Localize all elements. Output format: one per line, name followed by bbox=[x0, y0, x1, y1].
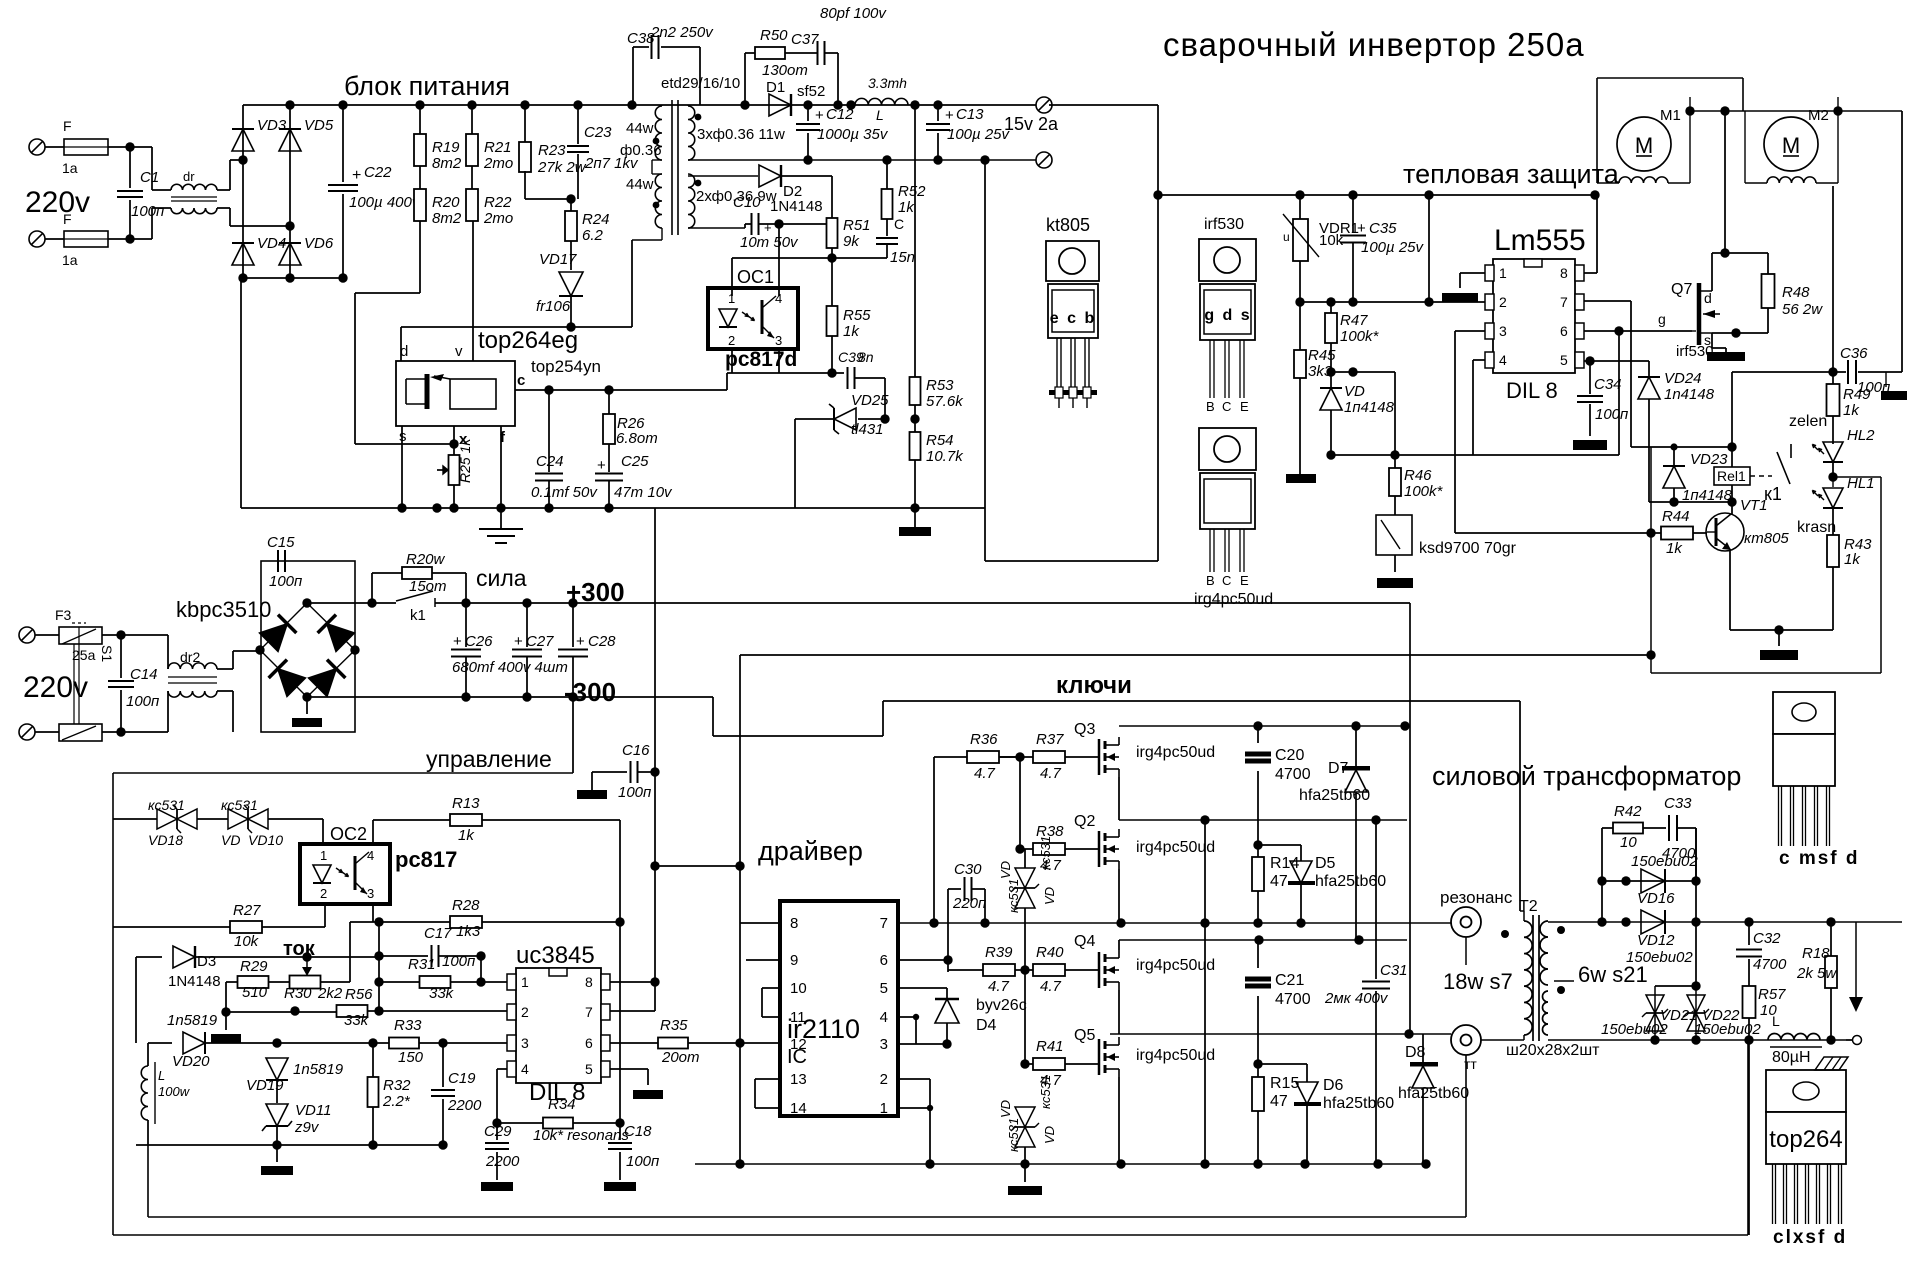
svg-text:1k: 1k bbox=[1666, 540, 1683, 557]
svg-text:12: 12 bbox=[790, 1036, 807, 1053]
junction dots rail y923 bbox=[929, 918, 938, 927]
thermal switch ksd9700 70gr bbox=[1376, 515, 1412, 555]
wire right edge down bbox=[1901, 111, 1903, 372]
svg-text:80µН: 80µН bbox=[1772, 1049, 1811, 1066]
resistor R28 1k3 bbox=[450, 916, 482, 928]
bridge diode 4 bbox=[309, 669, 337, 697]
svg-text:100µ 400v: 100µ 400v bbox=[349, 194, 421, 211]
svg-text:33k: 33k bbox=[429, 985, 455, 1002]
bidir zener кс531 upper bbox=[1015, 868, 1035, 888]
node x379 y922 bbox=[374, 917, 383, 926]
node R15 D6 top bbox=[1253, 1059, 1262, 1068]
svg-text:T2: T2 bbox=[1519, 898, 1538, 915]
svg-text:80pf 100v: 80pf 100v bbox=[820, 5, 887, 22]
wire top bus y105 bbox=[243, 104, 1036, 106]
wire Lm555 pin3 to R44 bbox=[1454, 331, 1456, 533]
svg-text:100п: 100п bbox=[626, 1153, 659, 1170]
wire Q2 source to rail bbox=[1118, 869, 1120, 923]
wire relay feed y447 bbox=[1631, 446, 1732, 448]
svg-text:D5: D5 bbox=[1315, 855, 1336, 872]
svg-text:clxsf d: clxsf d bbox=[1773, 1227, 1847, 1248]
svg-text:k1: k1 bbox=[410, 607, 426, 624]
resistor R55 1k bbox=[831, 258, 833, 307]
svg-text:M1: M1 bbox=[1660, 107, 1681, 124]
junction dots minus bus bbox=[461, 692, 470, 701]
svg-text:R24: R24 bbox=[582, 211, 610, 228]
svg-text:6.8om: 6.8om bbox=[616, 430, 658, 447]
capacitor C37 80pf 100v bbox=[817, 41, 819, 65]
resistor R14 47 bbox=[1257, 845, 1259, 857]
node R55 C39 bbox=[827, 368, 836, 377]
wire bridge plus to k1 bbox=[307, 602, 396, 604]
relay Rel1 bbox=[1714, 467, 1750, 485]
svg-text:dr: dr bbox=[183, 169, 195, 184]
wire 555 pin4 bbox=[1473, 359, 1485, 361]
svg-text:C10: C10 bbox=[733, 194, 761, 211]
wire C17 right down to pin1 line bbox=[480, 956, 482, 982]
svg-text:VD10: VD10 bbox=[248, 832, 283, 848]
wire 555 pin2 left bbox=[1429, 301, 1485, 303]
svg-text:1k: 1k bbox=[1844, 551, 1861, 568]
resistor R18 2k 5w bbox=[1830, 922, 1832, 956]
svg-text:C17: C17 bbox=[424, 925, 452, 942]
svg-text:R33: R33 bbox=[394, 1017, 422, 1034]
wire R42 left column bbox=[1601, 881, 1603, 922]
terminal резонанс bbox=[1451, 907, 1481, 937]
wire pin13 14 bracket bbox=[755, 1078, 780, 1080]
diode VD19 1n5819 bbox=[266, 1058, 288, 1080]
wire secondary2 top to D2 bbox=[688, 175, 758, 177]
svg-text:VD25: VD25 bbox=[851, 392, 889, 409]
svg-text:8n: 8n bbox=[858, 349, 874, 365]
wire x1696 column bbox=[1695, 828, 1697, 986]
wire VD20 to uc3845 pin3 line y1043 bbox=[205, 1042, 389, 1044]
svg-text:R57: R57 bbox=[1758, 986, 1786, 1003]
junction dots thermal line bbox=[1295, 190, 1304, 199]
mosfet Q7 irf530 bbox=[1697, 283, 1702, 345]
node pin6 bbox=[1614, 326, 1623, 335]
pot R30 2k2 bbox=[290, 976, 321, 989]
node Q2 midpoint x1205 bbox=[1200, 815, 1209, 824]
wire bottom return y1145 bbox=[136, 1144, 443, 1146]
node R33 C19 bbox=[438, 1038, 447, 1047]
svg-text:1a: 1a bbox=[62, 252, 78, 268]
led HL1 bbox=[1823, 488, 1843, 508]
svg-text:R40: R40 bbox=[1036, 944, 1064, 961]
svg-text:d: d bbox=[400, 343, 408, 360]
svg-text:VD24: VD24 bbox=[1664, 370, 1702, 387]
wire Q5 drain rail y1034 bbox=[1110, 1033, 1451, 1035]
svg-text:C26: C26 bbox=[465, 633, 493, 650]
diode VD6 bbox=[279, 243, 301, 265]
svg-text:tl431: tl431 bbox=[851, 421, 884, 438]
svg-text:1n4148: 1n4148 bbox=[1664, 386, 1715, 403]
wire D4 bottom to pin3 bbox=[898, 1043, 947, 1045]
svg-text:тепловая защита: тепловая защита bbox=[1403, 159, 1620, 189]
wire ток line y957 bbox=[195, 956, 379, 958]
svg-text:R29: R29 bbox=[240, 958, 268, 975]
resistor R48 56 2w bbox=[1767, 253, 1769, 274]
wire ps ground bus y508 bbox=[241, 507, 985, 509]
svg-text:1000µ 35v: 1000µ 35v bbox=[817, 126, 889, 143]
svg-text:C29: C29 bbox=[484, 1123, 512, 1140]
svg-text:33k: 33k bbox=[344, 1012, 370, 1029]
svg-text:R19: R19 bbox=[432, 139, 460, 156]
svg-text:R54: R54 bbox=[926, 432, 954, 449]
node R32 top bbox=[368, 1038, 377, 1047]
svg-text:C24: C24 bbox=[536, 453, 564, 470]
svg-text:VD20: VD20 bbox=[172, 1053, 210, 1070]
wire secondary bottom y1040 bbox=[1548, 1039, 1602, 1041]
capacitor C13 100µ 25v bbox=[937, 105, 939, 121]
capacitor C34 100п bbox=[1589, 361, 1591, 394]
svg-text:irf530: irf530 bbox=[1204, 216, 1244, 233]
svg-text:100k*: 100k* bbox=[1340, 328, 1380, 345]
wire relay bottom y502 bbox=[1649, 501, 1732, 503]
svg-text:C36: C36 bbox=[1840, 345, 1868, 362]
svg-text:кс531: кс531 bbox=[1006, 1118, 1021, 1152]
svg-text:R31: R31 bbox=[408, 956, 436, 973]
svg-text:2200: 2200 bbox=[485, 1153, 520, 1170]
wire c line bbox=[515, 389, 727, 391]
capacitor C26 680mf 400v bbox=[465, 603, 467, 647]
node x226 y1012 bbox=[221, 1007, 230, 1016]
ic ir2110 bbox=[780, 901, 898, 1116]
node R39 R40 bbox=[1020, 965, 1029, 974]
wire Q2 gate R38 bbox=[1019, 757, 1021, 849]
svg-text:R41: R41 bbox=[1036, 1038, 1064, 1055]
resistor R34 10k* resonans bbox=[497, 1122, 543, 1124]
svg-text:VD16: VD16 bbox=[1637, 890, 1675, 907]
capacitor C12 1000µ 35v bbox=[807, 105, 809, 121]
wire y373 corner to c-line bbox=[726, 373, 728, 390]
svg-text:3: 3 bbox=[1499, 323, 1507, 339]
svg-text:fr106: fr106 bbox=[536, 298, 571, 315]
choke dr bbox=[171, 184, 217, 190]
wire x1205 bus column bbox=[1204, 923, 1206, 1164]
inductor L 100w bbox=[147, 1042, 149, 1044]
wire fuse2 to choke bbox=[108, 238, 152, 240]
svg-text:R56: R56 bbox=[345, 986, 373, 1003]
junction dots lower line bbox=[803, 155, 812, 164]
svg-text:R45: R45 bbox=[1308, 347, 1336, 364]
wire frame bottom inner bbox=[148, 1216, 1466, 1218]
wire y655 long line bbox=[740, 654, 1651, 656]
bridge vertex dots bbox=[302, 598, 311, 607]
capacitor C 15n bbox=[886, 219, 888, 236]
junction dots top bus bbox=[285, 100, 294, 109]
diode VD23 1n4148 bbox=[1673, 447, 1675, 467]
bridge diode 3 bbox=[278, 669, 306, 697]
svg-text:top254yn: top254yn bbox=[531, 357, 601, 376]
svg-text:D6: D6 bbox=[1323, 1077, 1344, 1094]
capacitor C19 2200 bbox=[442, 1043, 444, 1087]
svg-text:14: 14 bbox=[790, 1100, 807, 1117]
svg-text:R28: R28 bbox=[452, 897, 480, 914]
svg-text:C31: C31 bbox=[1380, 962, 1408, 979]
svg-text:-300: -300 bbox=[564, 677, 616, 707]
wire emitter bottom rail bbox=[1730, 629, 1833, 631]
svg-text:F: F bbox=[63, 118, 72, 134]
svg-text:g: g bbox=[1658, 311, 1666, 327]
capacitor C30 220n bbox=[948, 888, 961, 890]
svg-text:3: 3 bbox=[521, 1035, 529, 1051]
svg-text:44w: 44w bbox=[626, 120, 654, 137]
resistor R56 33k bbox=[337, 1005, 368, 1017]
svg-text:100п: 100п bbox=[1595, 406, 1628, 423]
resistor R33 150 bbox=[389, 1038, 419, 1049]
svg-text:irg4pc50ud: irg4pc50ud bbox=[1136, 839, 1215, 856]
svg-text:L: L bbox=[158, 1068, 165, 1083]
wire secondary top y922 bbox=[1548, 921, 1602, 923]
wire y1012 line to pin2 bbox=[226, 1011, 337, 1013]
svg-text:2мк 400v: 2мк 400v bbox=[1324, 990, 1389, 1007]
resistor R54 10.7k bbox=[914, 405, 916, 432]
capacitor C10 10m 50v bbox=[688, 227, 745, 229]
wire pin9 stub bbox=[746, 959, 780, 961]
svg-text:8: 8 bbox=[585, 974, 593, 990]
svg-text:4: 4 bbox=[1499, 352, 1507, 368]
wire R51 R52 junction line bbox=[811, 257, 887, 259]
ground below C29 bbox=[481, 1182, 513, 1191]
wire R29 left riser bbox=[225, 982, 227, 1012]
wire y866 line bbox=[655, 865, 738, 867]
resistor R45 3k3 bbox=[1299, 302, 1301, 350]
resistor R15 47 bbox=[1257, 1064, 1259, 1077]
svg-text:VD23: VD23 bbox=[1690, 451, 1728, 468]
capacitor C33 4700 bbox=[1668, 815, 1670, 841]
bridge diode 1 bbox=[260, 624, 288, 652]
svg-text:3: 3 bbox=[367, 886, 374, 901]
wire minus jog to y736 bbox=[712, 697, 714, 736]
node x295 bbox=[290, 1006, 299, 1015]
bidir zener VD VD10 кс531 bbox=[228, 809, 248, 829]
svg-text:2: 2 bbox=[728, 333, 735, 348]
svg-text:C23: C23 bbox=[584, 124, 612, 141]
wire d-line bbox=[401, 326, 632, 328]
wire T2 primary top bbox=[1520, 910, 1524, 912]
svg-text:680mf 400v 4шт: 680mf 400v 4шт bbox=[452, 659, 568, 676]
svg-text:R27: R27 bbox=[233, 902, 261, 919]
svg-text:5: 5 bbox=[585, 1061, 593, 1077]
svg-text:C30: C30 bbox=[954, 861, 982, 878]
zener VD11 z9v bbox=[266, 1104, 288, 1126]
svg-text:D8: D8 bbox=[1405, 1044, 1426, 1061]
wire x1410 main rail bbox=[1409, 603, 1411, 1034]
node y866 bbox=[650, 861, 659, 870]
svg-text:27k 2w: 27k 2w bbox=[537, 159, 587, 176]
svg-text:zelen: zelen bbox=[1789, 413, 1827, 430]
wire T2 primary bottom to тт bbox=[1481, 1039, 1524, 1041]
svg-text:C16: C16 bbox=[622, 742, 650, 759]
svg-text:+: + bbox=[514, 633, 523, 650]
node C1 bottom bbox=[125, 234, 134, 243]
svg-text:C35: C35 bbox=[1369, 220, 1397, 237]
fuse F3 25a switch S1 bbox=[35, 634, 59, 636]
svg-text:C13: C13 bbox=[956, 106, 984, 123]
terminal power N bbox=[19, 724, 35, 740]
diode VD 1n4148 bbox=[1330, 372, 1332, 388]
wire plus bus y603 bbox=[435, 602, 1410, 604]
svg-text:R32: R32 bbox=[383, 1077, 411, 1094]
wire VT1 emitter down bbox=[1729, 549, 1731, 630]
wire кс531 upper column bbox=[1024, 849, 1026, 868]
svg-text:2: 2 bbox=[880, 1071, 888, 1088]
wire R28 line y922 bbox=[350, 921, 450, 923]
wire R30 right riser to R28 line bbox=[349, 922, 351, 982]
transistor VT1 кт805 bbox=[1706, 513, 1744, 551]
wire R24 to VD17 bbox=[570, 241, 572, 270]
svg-text:5: 5 bbox=[1560, 352, 1568, 368]
svg-text:OC2: OC2 bbox=[330, 824, 367, 844]
diode VD17 fr106 bbox=[559, 272, 583, 296]
node R23 C23 R24 bbox=[566, 194, 575, 203]
node bridge ac2 bbox=[285, 221, 294, 230]
junction dots bridge bottom bbox=[238, 273, 247, 282]
svg-text:Q2: Q2 bbox=[1074, 813, 1095, 830]
terminal тт bbox=[1451, 1025, 1481, 1055]
inductor L 80µH bbox=[1768, 1034, 1820, 1041]
svg-text:VT1: VT1 bbox=[1740, 497, 1768, 514]
svg-text:ф0.36: ф0.36 bbox=[620, 142, 662, 159]
bidir VD21 150ebu02 bbox=[1655, 985, 1696, 987]
svg-text:4: 4 bbox=[521, 1061, 529, 1077]
svg-text:irg4pc50ud: irg4pc50ud bbox=[1136, 744, 1215, 761]
svg-text:4: 4 bbox=[367, 848, 374, 863]
node VD19 top bbox=[272, 1038, 281, 1047]
wire M2 to zelen column bbox=[1832, 186, 1834, 372]
svg-text:g d s: g d s bbox=[1204, 307, 1251, 324]
wire C14 to dr2 bbox=[121, 634, 168, 636]
svg-text:10m 50v: 10m 50v bbox=[740, 234, 799, 251]
svg-text:3: 3 bbox=[880, 1036, 888, 1053]
wire choke to bridge lower bbox=[217, 207, 230, 209]
wire VD16 row y881 bbox=[1602, 880, 1696, 882]
wire bottom bus y1164 bbox=[695, 1163, 1426, 1165]
svg-text:1: 1 bbox=[521, 974, 529, 990]
svg-text:+: + bbox=[945, 107, 954, 124]
svg-text:2200: 2200 bbox=[447, 1097, 482, 1114]
svg-text:VD: VD bbox=[998, 1100, 1013, 1118]
svg-text:OC1: OC1 bbox=[737, 267, 774, 287]
capacitor C29 2200 bbox=[496, 1123, 498, 1140]
svg-text:B: B bbox=[1206, 399, 1215, 414]
wire OC2 pin4 up to R13 line bbox=[372, 820, 374, 844]
svg-text:C14: C14 bbox=[130, 666, 158, 683]
junction dots ground bus bbox=[397, 503, 406, 512]
svg-text:R53: R53 bbox=[926, 377, 954, 394]
svg-text:Q7: Q7 bbox=[1671, 281, 1692, 298]
wire thermal line y195 bbox=[1157, 194, 1597, 196]
svg-text:dr2: dr2 bbox=[180, 649, 200, 665]
svg-text:R52: R52 bbox=[898, 183, 926, 200]
svg-text:+: + bbox=[815, 107, 824, 124]
svg-text:кс531: кс531 bbox=[1006, 879, 1021, 913]
wire 555 pin6 to gate bbox=[1584, 330, 1692, 332]
resistor R43 1k bbox=[1832, 509, 1834, 537]
svg-text:C34: C34 bbox=[1594, 376, 1622, 393]
svg-text:1: 1 bbox=[320, 848, 327, 863]
diode VD24 1n4148 bbox=[1648, 361, 1650, 378]
wire primary bottom to d-line bbox=[661, 228, 663, 240]
ground below VT1 bbox=[1778, 630, 1780, 646]
svg-text:VD: VD bbox=[1042, 1126, 1057, 1144]
diode D6 hfa25tb60 bbox=[1258, 1063, 1307, 1065]
wire x738 column bbox=[739, 655, 741, 866]
svg-text:резонанс: резонанс bbox=[1440, 888, 1513, 907]
svg-text:pc817: pc817 bbox=[395, 847, 457, 872]
capacitor C38 2n2 250v bbox=[632, 47, 634, 105]
svg-text:v: v bbox=[455, 343, 463, 360]
terminal input L1 bbox=[29, 139, 45, 155]
wire fuse1 to choke bbox=[108, 146, 152, 148]
fuse F1 1a bbox=[45, 146, 64, 148]
svg-text:3.3mh: 3.3mh bbox=[868, 75, 907, 91]
svg-text:2k2: 2k2 bbox=[317, 985, 343, 1002]
capacitor C25 47m 10v bbox=[608, 444, 610, 472]
svg-text:100п: 100п bbox=[269, 573, 302, 590]
wire T2 primary drop bbox=[1519, 701, 1521, 911]
node R53 R54 bbox=[910, 414, 919, 423]
node R36 R37 bbox=[1015, 752, 1024, 761]
svg-text:R51: R51 bbox=[843, 217, 871, 234]
svg-text:R55: R55 bbox=[843, 307, 871, 324]
svg-text:6.2: 6.2 bbox=[582, 227, 604, 244]
wire R41 left node bbox=[1025, 1063, 1033, 1065]
svg-text:100п: 100п bbox=[618, 784, 651, 801]
wire OC1 pin1 up bbox=[731, 258, 733, 296]
svg-text:kbpc3510: kbpc3510 bbox=[176, 597, 271, 622]
svg-text:R50: R50 bbox=[760, 27, 788, 44]
fuse F2 1a bbox=[45, 238, 64, 240]
svg-text:E: E bbox=[1240, 399, 1249, 414]
svg-text:uc3845: uc3845 bbox=[516, 942, 595, 969]
svg-text:L: L bbox=[1772, 1013, 1780, 1029]
svg-text:top264eg: top264eg bbox=[478, 327, 578, 354]
svg-text:B: B bbox=[1206, 573, 1215, 588]
wire кс531 chain line bbox=[113, 818, 157, 820]
svg-text:irg4pc50ud: irg4pc50ud bbox=[1136, 1047, 1215, 1064]
junction dots y1040 bbox=[1650, 1035, 1659, 1044]
svg-text:10.7k: 10.7k bbox=[926, 448, 964, 465]
svg-text:HL2: HL2 bbox=[1847, 427, 1875, 444]
svg-text:C19: C19 bbox=[448, 1070, 476, 1087]
svg-text:4700: 4700 bbox=[1753, 956, 1787, 973]
svg-text:1k: 1k bbox=[843, 323, 860, 340]
wire OC1 pins 2 3 down to y373 bbox=[731, 349, 733, 373]
resistor R20 8m2 bbox=[419, 166, 421, 190]
earth ground symbol bbox=[500, 508, 502, 529]
wire тт column bbox=[1465, 1055, 1467, 1217]
svg-text:R49: R49 bbox=[1843, 386, 1871, 403]
diode D7 hfa25tb60 bbox=[1355, 726, 1357, 768]
wire output bus y1040 bbox=[1602, 1039, 1846, 1041]
svg-text:4: 4 bbox=[880, 1009, 888, 1026]
diode D4 byv26c bbox=[898, 987, 947, 989]
svg-text:ksd9700 70gr: ksd9700 70gr bbox=[1419, 540, 1517, 557]
wire pin7 rail y923 bbox=[898, 922, 1451, 924]
wire pin10 11 bracket bbox=[762, 987, 780, 989]
wire pin4 pin2 bracket x916 bbox=[898, 1016, 916, 1018]
wire bridge left column bbox=[242, 105, 244, 278]
svg-text:VD: VD bbox=[221, 832, 240, 848]
node x1410 y1034 bbox=[1404, 1029, 1413, 1038]
svg-text:+: + bbox=[1357, 220, 1366, 237]
switch к1 bbox=[1777, 452, 1790, 484]
svg-text:1: 1 bbox=[880, 1100, 888, 1117]
svg-text:Q3: Q3 bbox=[1074, 721, 1095, 738]
svg-text:13: 13 bbox=[790, 1071, 807, 1088]
